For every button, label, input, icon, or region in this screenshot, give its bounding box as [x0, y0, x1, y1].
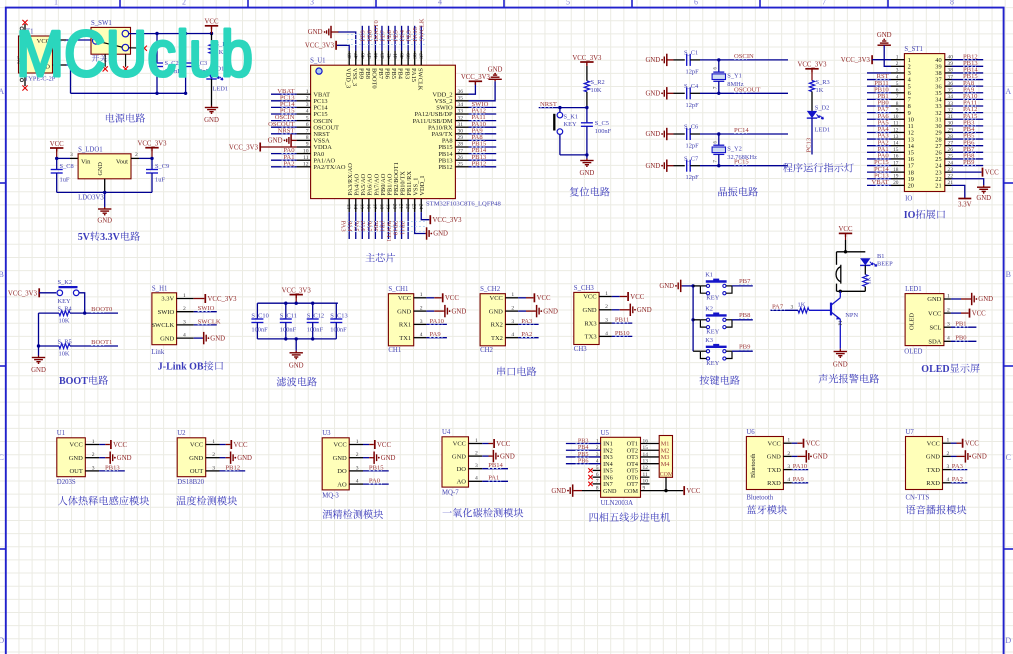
svg-text:GND: GND	[645, 57, 660, 64]
svg-text:VCC_3V3: VCC_3V3	[137, 141, 167, 148]
U1 pin 22 lead	[407, 199, 409, 213]
wire U1 pin 33	[469, 113, 497, 115]
wire U1 pin 43	[381, 26, 383, 51]
S_ST1 pin 9 lead	[891, 112, 904, 114]
wire GND to U5 pin8	[574, 490, 582, 492]
U1 pin 13 lead	[348, 199, 350, 213]
LED D3 (alarm)	[860, 258, 870, 265]
wire U6 pin 4	[792, 482, 808, 484]
svg-text:GND: GND	[583, 307, 597, 314]
svg-text:41: 41	[393, 53, 399, 59]
U1 pin 30 lead	[455, 133, 468, 135]
wire K1 to PB7	[732, 285, 753, 287]
wire S_ST1 pin 40	[952, 59, 984, 61]
SW1 bottom pin B	[125, 54, 127, 67]
svg-text:KEY: KEY	[564, 121, 578, 128]
svg-text:18: 18	[378, 204, 384, 210]
wire R2 to NRST node	[586, 92, 588, 108]
svg-text:J-Link OB: J-Link OB	[158, 362, 204, 373]
svg-text:GND: GND	[877, 32, 892, 39]
ground GND (U2)	[229, 457, 230, 459]
selection dashes top bundle	[347, 34, 426, 36]
svg-text:PB10: PB10	[392, 221, 399, 236]
svg-text:MQ-3: MQ-3	[322, 492, 339, 499]
no-ERC marker on T1 top pin	[22, 20, 27, 25]
wire LDO bottom rail	[57, 191, 152, 193]
wire U7 pin 4	[951, 482, 967, 484]
S_ST1 pin 5 lead	[891, 85, 904, 87]
wire S_ST1 pin 37	[952, 79, 984, 81]
svg-text:3: 3	[212, 465, 215, 471]
svg-text:3: 3	[183, 319, 186, 325]
wire LED1 pin3	[951, 326, 977, 328]
wire U5 OT1 to motor	[641, 443, 660, 445]
wire K1 to bottom	[559, 134, 561, 155]
svg-text:GND: GND	[500, 453, 515, 460]
power 3.3V (S_ST1 pin21)	[958, 198, 971, 200]
ground GND (U5 pin8)	[573, 490, 574, 492]
S_ST1 pin 37 lead(right)	[945, 79, 952, 81]
svg-text:14: 14	[893, 140, 899, 146]
wire S_CH2 pin3	[518, 323, 539, 325]
module U1 (D203S) body	[57, 438, 86, 477]
wire S_ST1 pin 32	[952, 112, 984, 114]
power VCC (alarm)	[839, 232, 852, 234]
S_ST1 pin 10 lead	[891, 118, 904, 120]
svg-text:S_CH3: S_CH3	[574, 285, 595, 292]
svg-text:VCC: VCC	[839, 226, 853, 233]
svg-text:S_C1: S_C1	[684, 50, 698, 57]
pushbutton K2	[706, 318, 709, 321]
switch S_K1	[557, 112, 563, 118]
U1 pin 23 lead	[414, 199, 416, 213]
svg-text:S_R4: S_R4	[58, 306, 73, 313]
wire U3 pin2 to GND	[363, 457, 369, 459]
svg-text:SWCLK: SWCLK	[419, 18, 426, 41]
U1 pin 1 lead	[297, 93, 311, 95]
T1 top pin	[24, 24, 26, 36]
svg-text:PB13: PB13	[105, 464, 120, 471]
svg-text:PB4: PB4	[397, 68, 404, 80]
capacitor S_C12 100nF	[312, 303, 314, 319]
wire base resistor to base	[809, 309, 831, 311]
svg-text:PB10: PB10	[615, 330, 630, 337]
svg-text:VCC: VCC	[686, 488, 700, 495]
wire U1 pin 3	[271, 106, 297, 108]
wire U1 VDD_1 to VCC_3V3	[421, 212, 429, 220]
svg-text:19: 19	[893, 174, 899, 180]
wire U1 VSS_1 to GND	[415, 212, 426, 233]
U1 pin 28 lead	[455, 146, 468, 148]
svg-text:GND: GND	[813, 454, 828, 461]
caption 一氧化碳检测模块	[443, 511, 452, 512]
wire U1 pin 34	[469, 106, 497, 108]
svg-text:GND: GND	[31, 367, 46, 374]
svg-text:10K: 10K	[591, 87, 602, 94]
svg-text:1: 1	[92, 439, 95, 445]
switch S_SW1	[91, 27, 131, 54]
svg-text:SWCLK: SWCLK	[416, 68, 423, 91]
power VCC (U2)	[230, 440, 232, 449]
wire GND to S_C1	[668, 59, 674, 61]
U1 pin 32 lead	[455, 120, 468, 122]
wire U1 pin 32	[469, 120, 497, 122]
pushbutton K3	[706, 350, 709, 353]
capacitor S_C3	[185, 34, 187, 64]
svg-text:39: 39	[406, 53, 412, 59]
U1 pin 46 lead	[361, 51, 363, 66]
svg-text:20: 20	[391, 204, 397, 210]
U1 pin 4 lead	[297, 113, 311, 115]
T1 bottom pin	[24, 73, 26, 86]
wire NRST	[539, 107, 587, 109]
svg-text:S_C9: S_C9	[155, 163, 169, 170]
svg-text:1: 1	[54, 0, 58, 7]
svg-text:GND: GND	[543, 308, 558, 315]
capacitor S_C11 100nF	[285, 303, 287, 319]
svg-text:2: 2	[475, 451, 478, 457]
svg-text:1: 1	[183, 293, 186, 299]
S_ST1 pin 32 lead(right)	[945, 112, 952, 114]
wire S_ST1 pin 27	[952, 145, 984, 147]
svg-text:K1: K1	[705, 272, 713, 279]
ground GND (OLED)	[971, 298, 972, 300]
wire U6 pin 3	[792, 469, 808, 471]
ground GND (U1)	[109, 457, 110, 459]
svg-text:7: 7	[896, 94, 899, 100]
resistor S_R2	[584, 81, 589, 92]
wire U1 pin 25	[469, 166, 497, 168]
U1 pin 34 lead	[455, 106, 468, 108]
svg-text:VCC_3V3: VCC_3V3	[797, 62, 827, 69]
svg-text:COM: COM	[660, 472, 673, 478]
U1 pin 6 lead	[297, 126, 311, 128]
svg-text:PB7: PB7	[377, 68, 384, 80]
svg-text:PB3: PB3	[403, 68, 410, 79]
display LED1 body	[905, 294, 944, 346]
wire trunk to GND	[38, 346, 40, 356]
svg-text:1: 1	[420, 292, 423, 298]
wire U2 pin1 to VCC	[220, 444, 226, 446]
junction at Y2 bottom	[717, 164, 720, 167]
svg-text:13: 13	[345, 204, 351, 210]
power VCC_3V3 (filter)	[290, 294, 303, 296]
svg-text:PC14: PC14	[734, 127, 749, 134]
U5 pin 5 lead	[593, 469, 601, 471]
caption 按键电路	[700, 375, 710, 384]
wire S_ST1 pin21 to 3.3V	[952, 185, 965, 198]
power GND at S_C4	[667, 92, 668, 94]
wire S_ST1 pin 8	[867, 105, 891, 107]
caption 声光报警电路	[819, 374, 828, 383]
caption 晶振电路	[718, 187, 727, 196]
U1 pin 31 lead	[455, 126, 468, 128]
svg-text:VCC: VCC	[113, 442, 127, 449]
U1 pin 16 lead	[368, 199, 370, 213]
svg-text:GND: GND	[381, 455, 396, 462]
svg-text:4: 4	[947, 336, 950, 342]
wire U1 pin 22	[407, 212, 409, 239]
svg-text:S_C11: S_C11	[280, 313, 297, 320]
wire U5 OT4 to motor	[641, 463, 660, 465]
svg-text:ULN2003A: ULN2003A	[601, 500, 634, 507]
svg-text:PA3: PA3	[339, 221, 346, 233]
svg-text:GND: GND	[268, 138, 283, 145]
wire U1 pin 29	[469, 139, 497, 141]
wire filter top rail	[257, 302, 338, 304]
svg-text:VCC: VCC	[630, 294, 644, 301]
svg-text:S_C7: S_C7	[684, 155, 699, 162]
U5 pin 12 lead (right)	[641, 469, 650, 471]
svg-text:LED1: LED1	[815, 127, 831, 134]
svg-text:3: 3	[92, 465, 95, 471]
wire LED to GND	[211, 79, 213, 106]
wire U4 pin 4	[482, 480, 508, 482]
wire S_ST1 pin22 to GND	[952, 179, 984, 185]
svg-text:A: A	[1005, 87, 1011, 96]
power GND at S_C7	[667, 165, 668, 167]
wire S_ST1 pin 3	[867, 72, 891, 74]
wire U4 pin2 to GND	[482, 455, 488, 457]
S_ST1 pin 1 lead	[891, 59, 904, 61]
svg-text:GND: GND	[69, 455, 83, 462]
svg-text:GND: GND	[659, 283, 674, 290]
wire VCC_3V3 to R2	[586, 66, 588, 81]
wire U3 pin1 to VCC	[363, 444, 369, 446]
power VCC_3V3 at U1 VDD_1	[429, 215, 431, 224]
svg-text:DS18B20: DS18B20	[177, 479, 204, 486]
svg-text:LED1: LED1	[905, 286, 922, 293]
S_ST1 pin 17 lead	[891, 165, 904, 167]
svg-text:4: 4	[420, 332, 423, 338]
svg-text:4: 4	[356, 479, 359, 485]
svg-text:BOOT0: BOOT0	[371, 68, 378, 89]
svg-text:16: 16	[893, 154, 899, 160]
S_ST1 pin 35 lead(right)	[945, 92, 952, 94]
svg-text:VCC: VCC	[50, 141, 64, 148]
capacitor S_C9	[151, 158, 153, 169]
junction alarm top node	[844, 250, 847, 253]
resistor 1K (alarm, vertical)	[863, 275, 868, 287]
wire T1 pin2 down to bottom rail	[66, 65, 71, 93]
svg-text:3: 3	[787, 464, 790, 470]
U1 pin 36 lead	[455, 93, 468, 95]
svg-text:S_K1: S_K1	[564, 114, 579, 121]
svg-text:2: 2	[356, 452, 359, 458]
junction filter top	[284, 302, 287, 305]
wire key trunk	[692, 286, 694, 351]
power VCC (U7)	[962, 439, 964, 448]
wire S_CH1 pin2 to GND	[426, 310, 434, 312]
junction filter top	[295, 302, 298, 305]
svg-text:M4: M4	[661, 461, 670, 468]
wire S_H1 pin4 to GND	[194, 337, 203, 339]
wire S_ST1 pin 18	[867, 171, 891, 173]
svg-text:GND: GND	[289, 362, 304, 369]
U5 pin 6 lead	[593, 476, 601, 478]
svg-text:DO: DO	[457, 466, 467, 473]
svg-text:44: 44	[373, 53, 379, 59]
svg-text:7: 7	[822, 0, 826, 7]
svg-text:1: 1	[947, 438, 950, 444]
svg-text:1: 1	[511, 292, 514, 298]
svg-text:OUT: OUT	[69, 468, 82, 475]
power VCC_3V3 at U1 VDD_2	[469, 80, 482, 82]
wire GND to S_C7	[668, 165, 674, 167]
wire U5 IN1	[566, 443, 601, 445]
svg-text:14: 14	[352, 204, 358, 210]
wire VCC down to node	[845, 240, 847, 252]
wire LDO Vout to VCC_3V3	[131, 157, 139, 159]
svg-text:RXD: RXD	[767, 480, 781, 487]
svg-text:47: 47	[354, 53, 360, 59]
svg-text:S_R2: S_R2	[591, 79, 605, 86]
wire S_ST1 pin 15	[867, 151, 891, 153]
T1 pin 2	[53, 64, 67, 66]
svg-text:D203S: D203S	[57, 479, 76, 486]
U1 pin 7 lead	[297, 133, 311, 135]
ground GND (S_CH1)	[444, 310, 445, 312]
svg-text:1uF: 1uF	[60, 177, 70, 184]
ground GND (U3)	[373, 457, 374, 459]
crystal S_Y1 8MHz	[718, 60, 720, 72]
U1 pin 15 lead	[361, 199, 363, 213]
svg-text:GND: GND	[237, 455, 252, 462]
svg-text:TX1: TX1	[399, 335, 411, 342]
wire S_ST1 pin 12	[867, 131, 891, 133]
svg-text:GND: GND	[308, 29, 323, 36]
wire U1 pin 39	[407, 26, 409, 51]
svg-text:U6: U6	[746, 429, 755, 436]
svg-text:GND: GND	[189, 455, 203, 462]
power GND at U1 VSS_2	[494, 79, 496, 81]
svg-text:GND: GND	[117, 455, 132, 462]
S_ST1 pin 40 lead(right)	[945, 59, 952, 61]
wire U1 pin 20	[394, 212, 396, 239]
svg-text:VCC_3V3: VCC_3V3	[433, 217, 463, 224]
svg-text:20: 20	[893, 180, 899, 186]
S_ST1 pin 4 lead	[891, 79, 904, 81]
junction at K1	[691, 284, 694, 287]
svg-text:21: 21	[398, 204, 404, 210]
module U3 (MQ-3) body	[322, 438, 349, 490]
resistor S_R1	[211, 34, 213, 43]
wire U1 pin 3	[99, 470, 125, 472]
motor connector body	[659, 436, 672, 478]
module U4 (MQ-7) body	[442, 437, 469, 487]
wire U1 pin 18	[381, 212, 383, 239]
svg-text:CH2: CH2	[480, 347, 493, 354]
wire U2 pin 3	[220, 470, 246, 472]
svg-text:2: 2	[135, 152, 138, 158]
svg-text:22: 22	[404, 204, 410, 210]
power VCC_3V3 (J-Link)	[204, 294, 206, 303]
junction at C2 bottom	[155, 92, 158, 95]
wire S_ST1 pin 20	[867, 184, 891, 186]
caption 四相五线步进电机	[590, 513, 599, 522]
svg-text:S_Y1: S_Y1	[727, 73, 742, 80]
T1 pin 1	[53, 39, 67, 41]
svg-text:U7: U7	[906, 429, 915, 436]
svg-text:2: 2	[182, 0, 186, 7]
wire VCC_3V3 to S_ST1 pin1	[872, 59, 891, 61]
svg-text:GND: GND	[204, 117, 219, 124]
S_ST1 pin 12 lead	[891, 131, 904, 133]
wire OSCOUT to net	[700, 92, 788, 94]
svg-text:S_ST1: S_ST1	[904, 46, 923, 53]
svg-text:3.3V: 3.3V	[161, 296, 174, 303]
wire U1 pin 41	[394, 26, 396, 51]
svg-text:KEY: KEY	[58, 298, 72, 305]
svg-text:D: D	[0, 636, 4, 645]
svg-text:S_C5: S_C5	[595, 120, 609, 127]
svg-text:18: 18	[893, 167, 899, 173]
svg-text:B1: B1	[877, 253, 884, 260]
U1 pin 42 lead	[388, 51, 390, 66]
wire S_ST1 pin 9	[867, 112, 891, 114]
wire S_CH3 pin4	[612, 335, 633, 337]
power VCC (U6)	[803, 439, 805, 448]
svg-text:2: 2	[787, 451, 790, 457]
wire U5 IN2	[566, 449, 601, 451]
wire U1 pin 1	[271, 93, 297, 95]
svg-text:U2: U2	[177, 430, 186, 437]
wire U1 pin2 to GND	[99, 457, 105, 459]
wire U1 pin 27	[469, 153, 497, 155]
svg-text:3.3V: 3.3V	[958, 201, 971, 208]
power port VCC_3V3 (LDO output)	[145, 147, 158, 149]
U1 pin 9 lead	[297, 146, 311, 148]
wire S_ST1 pin 28	[952, 138, 984, 140]
svg-text:1: 1	[947, 293, 950, 299]
wire U1 pin 28	[469, 146, 497, 148]
wire U6 pin1 to VCC	[792, 442, 798, 444]
wire bottom rail	[71, 92, 186, 94]
U1 pin 17 lead	[374, 199, 376, 213]
svg-text:2: 2	[947, 451, 950, 457]
svg-text:PB5: PB5	[390, 68, 397, 79]
svg-text:RXD: RXD	[926, 480, 940, 487]
connector S_CH3 body	[574, 292, 599, 344]
svg-text:19: 19	[385, 204, 391, 210]
crystal S_Y2 32.768KHz	[718, 134, 720, 145]
svg-text:15: 15	[893, 147, 899, 153]
selection dashes bottom bundle	[347, 221, 426, 223]
U1 pin 38 lead	[414, 51, 416, 66]
wire K2 to PB8	[732, 319, 753, 321]
wire U2 pin2 to GND	[220, 457, 226, 459]
svg-text:PB9: PB9	[963, 159, 975, 166]
ground GND (S_CH3)	[629, 309, 630, 311]
wire U1 pin 16	[368, 212, 370, 239]
svg-text:1K: 1K	[798, 301, 806, 308]
S_ST1 pin 15 lead	[891, 151, 904, 153]
svg-text:3: 3	[475, 463, 478, 469]
wire S_CH2 pin4	[518, 337, 539, 339]
wire R5 left	[39, 345, 60, 347]
svg-text:12pF: 12pF	[686, 143, 700, 150]
svg-text:4: 4	[511, 332, 514, 338]
svg-text:40: 40	[400, 53, 406, 59]
power port VCC_3V3 (indicator)	[805, 68, 818, 70]
svg-text:GND: GND	[833, 362, 848, 369]
svg-text:S_Y2: S_Y2	[727, 146, 742, 153]
U1 pin 19 lead	[388, 199, 390, 213]
svg-text:2: 2	[896, 61, 899, 67]
svg-text:SWIO: SWIO	[158, 309, 175, 316]
svg-text:GND: GND	[452, 453, 466, 460]
U1 pin 20 lead	[394, 199, 396, 213]
